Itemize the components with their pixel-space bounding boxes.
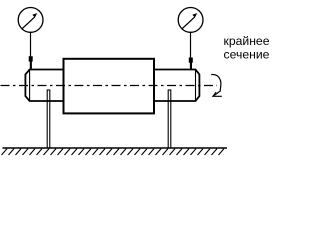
svg-text:крайнее: крайнее [224, 34, 270, 48]
dial indicator right: body circle [178, 8, 203, 33]
dial indicator left: body circle [18, 8, 43, 33]
dial indicator left: needle [22, 17, 35, 29]
rotation arrow open head [213, 92, 222, 96]
dial indicator left: stem [30, 32, 32, 58]
rotation arrow (about axis, right end) [211, 75, 221, 97]
svg-text:сечение: сечение [224, 48, 270, 62]
ground line [3, 147, 228, 149]
support left (stand under left journal) [47, 90, 51, 148]
dial indicator left: contact arrowhead [29, 56, 33, 68]
dial indicator left: needle arrowhead [32, 13, 37, 18]
chamfer edge line right [195, 70, 197, 102]
shaft left journal (chamfered left end) [25, 70, 63, 102]
chamfer edge line left [29, 70, 31, 102]
ground hatching [2, 149, 225, 155]
dial indicator right: needle [182, 17, 195, 29]
dial indicator right: contact arrowhead [189, 58, 193, 70]
shaft body (large central cylinder) [64, 59, 155, 114]
shaft right journal (chamfered right end) [154, 70, 199, 102]
centerline (shaft axis, dash-dot) [1, 85, 218, 87]
support right (stand under right journal) [168, 90, 172, 148]
dial indicator right: needle arrowhead [192, 13, 197, 18]
dial indicator right: stem [190, 32, 192, 59]
